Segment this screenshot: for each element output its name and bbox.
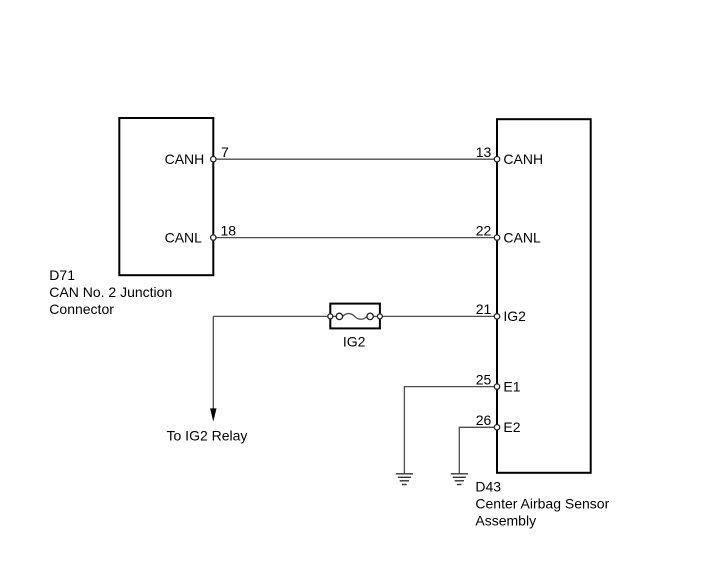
arrow to IG2 relay [210,408,216,421]
wire E2 (D43 pin 26 to ground) [459,427,497,474]
label To IG2 Relay [167,428,248,444]
ground (E2) [451,474,468,485]
wire fuse IG2 to D43 pin 21 [380,315,497,317]
pin label CANL (D71) [165,229,203,245]
svg-text:E2: E2 [503,419,520,435]
connector D71 box (CAN No. 2 Junction Connector) [119,118,213,275]
svg-text:IG2: IG2 [503,308,526,324]
svg-text:25: 25 [476,371,492,387]
wire CANH (D71 pin 7 to D43 pin 13) [213,158,497,160]
wire fuse IG2 left to branch corner [213,315,330,317]
svg-text:CAN No. 2 Junction: CAN No. 2 Junction [49,284,172,300]
pin number 26 (D43) [476,412,492,428]
svg-text:Connector: Connector [49,301,114,317]
svg-text:26: 26 [476,412,492,428]
pin 18 circle (D71 CANL) [211,235,216,240]
svg-text:E1: E1 [503,378,520,394]
svg-text:D71: D71 [49,267,75,283]
pin number 18 (D71) [221,222,237,238]
pin label CANL (D43) [503,229,541,245]
svg-text:13: 13 [476,144,492,160]
svg-text:22: 22 [476,222,492,238]
pin number 25 (D43) [476,371,492,387]
pin label CANH (D43) [503,151,543,167]
label D71 CAN No. 2 Junction Connector [49,267,172,317]
svg-text:Center Airbag Sensor: Center Airbag Sensor [475,495,609,511]
wire CANL (D71 pin 18 to D43 pin 22) [213,237,497,239]
pin label E1 (D43) [503,378,520,394]
wire branch down to IG2 relay [212,316,214,409]
pin 22 circle (D43 CANL) [494,235,499,240]
svg-text:D43: D43 [475,478,501,494]
svg-text:To IG2 Relay: To IG2 Relay [167,428,248,444]
svg-text:CANH: CANH [165,151,205,167]
pin 7 circle (D71 CANH) [211,157,216,162]
pin number 22 (D43) [476,222,492,238]
svg-text:18: 18 [221,222,237,238]
pin label IG2 (D43) [503,308,526,324]
connector D43 box (Center Airbag Sensor Assembly) [497,119,591,473]
svg-text:Assembly: Assembly [475,512,536,528]
pin 21 circle (D43 IG2) [494,314,499,319]
ground (E1) [396,474,413,485]
pin number 21 (D43) [476,301,492,317]
svg-text:CANL: CANL [165,229,203,245]
pin label E2 (D43) [503,419,520,435]
wire E1 (D43 pin 25 to ground) [404,387,497,474]
label IG2 (fuse value) [343,333,366,349]
label D43 Center Airbag Sensor Assembly [475,478,609,528]
svg-text:21: 21 [476,301,492,317]
pin number 7 (D71) [221,144,229,160]
pin 25 circle (D43 E1) [494,384,499,389]
pin label CANH (D71) [165,151,205,167]
pin number 13 (D43) [476,144,492,160]
svg-text:IG2: IG2 [343,333,366,349]
svg-text:CANL: CANL [503,229,541,245]
svg-text:CANH: CANH [503,151,543,167]
pin 26 circle (D43 E2) [494,425,499,430]
fuse IG2 [328,304,383,329]
svg-text:7: 7 [221,144,229,160]
pin 13 circle (D43 CANH) [494,157,499,162]
